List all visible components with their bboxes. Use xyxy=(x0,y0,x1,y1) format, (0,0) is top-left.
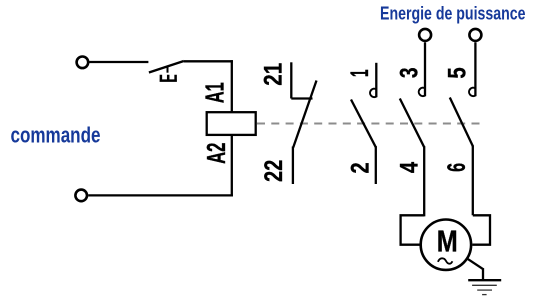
aux contact 22 bottom wire xyxy=(292,147,294,185)
pole 5 top wire xyxy=(474,42,476,96)
wire switch to corner xyxy=(184,60,233,62)
ground bar 4 xyxy=(482,294,487,296)
coil K (rectangle) xyxy=(207,112,256,135)
bottom wire to terminal xyxy=(88,194,233,196)
pole 6 bottom wire xyxy=(472,146,474,216)
pole 1 hook contact xyxy=(370,89,376,97)
motor bracket right xyxy=(472,215,490,244)
pole 1 blade xyxy=(351,100,376,148)
svg-text:3: 3 xyxy=(396,67,424,78)
svg-text:A2: A2 xyxy=(203,143,231,164)
wire corner down to coil xyxy=(231,60,233,112)
terminal circle pole 5 xyxy=(469,29,481,41)
svg-text:21: 21 xyxy=(260,63,288,86)
pole 5 blade xyxy=(450,98,473,147)
aux contact blade xyxy=(293,81,316,148)
pole 3 blade xyxy=(400,99,424,148)
pole 3 top wire xyxy=(424,42,426,96)
ground bar 2 xyxy=(472,284,497,286)
aux contact 21 top wire xyxy=(290,62,292,98)
pole 5 hook contact xyxy=(469,88,475,96)
svg-text:M: M xyxy=(437,224,458,259)
ground stem xyxy=(482,268,484,280)
wire from top-left terminal xyxy=(89,61,148,63)
pole 4 bottom wire xyxy=(423,146,425,216)
switch E actuator tick xyxy=(167,66,169,73)
svg-text:2: 2 xyxy=(346,162,374,173)
svg-text:A1: A1 xyxy=(201,82,229,103)
ground bar 1 xyxy=(468,279,501,281)
wire coil down to bottom corner xyxy=(231,135,233,197)
motor bracket left xyxy=(401,215,425,244)
switch E blade xyxy=(149,61,184,73)
terminal circle bottom-left xyxy=(75,190,87,202)
motor M1 circle xyxy=(421,220,471,270)
svg-text:Energie de puissance: Energie de puissance xyxy=(380,3,526,23)
mechanical linkage dashed line xyxy=(257,123,486,125)
svg-text:4: 4 xyxy=(396,162,424,173)
pole 3 hook contact xyxy=(419,88,425,96)
terminal circle top-left xyxy=(77,57,89,69)
svg-text:1: 1 xyxy=(346,69,374,77)
pole 2 bottom wire xyxy=(375,146,377,184)
svg-text:5: 5 xyxy=(443,67,471,78)
svg-text:commande: commande xyxy=(11,123,101,148)
aux contact NC bar xyxy=(291,97,312,99)
motor AC tilde xyxy=(438,258,452,263)
ground bar 3 xyxy=(477,289,492,291)
svg-text:22: 22 xyxy=(260,160,288,182)
pole 1 top wire xyxy=(375,63,377,97)
wire motor to ground (diagonal) xyxy=(468,259,483,269)
label E xyxy=(160,75,177,81)
svg-text:6: 6 xyxy=(443,163,471,172)
terminal circle pole 3 xyxy=(419,29,431,41)
